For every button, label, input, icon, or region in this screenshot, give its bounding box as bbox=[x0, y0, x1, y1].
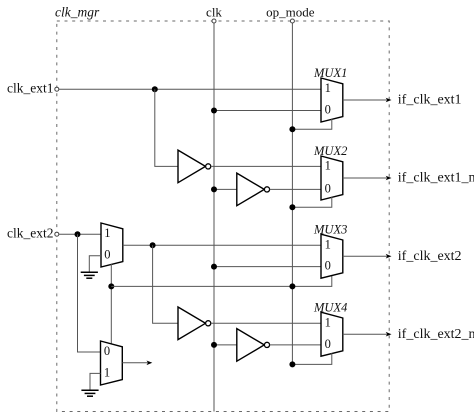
inverter U4 bbox=[237, 329, 270, 362]
svg-text:MUX3: MUX3 bbox=[313, 222, 347, 236]
junction clk_ext2 branch bbox=[75, 231, 81, 237]
wire MUX3 output if_clk_ext2 bbox=[343, 249, 462, 264]
svg-text:1: 1 bbox=[325, 159, 331, 173]
junction op_mode / select bus bbox=[289, 283, 295, 289]
mux MUX1 bbox=[313, 66, 347, 122]
svg-text:if_clk_ext2: if_clk_ext2 bbox=[398, 249, 462, 264]
port clk_ext1 bbox=[7, 81, 59, 96]
mux MUX3 bbox=[313, 222, 347, 278]
wire mux M5 input 0 to ground bbox=[89, 256, 101, 272]
port clk bbox=[206, 5, 222, 24]
svg-text:1: 1 bbox=[325, 315, 331, 329]
wire branch down to mux M6 input 0 bbox=[78, 234, 101, 352]
wire branch down to inverter U3 bbox=[153, 245, 178, 323]
wire MUX2 select from op_mode bbox=[292, 197, 331, 207]
inverter U1 bbox=[178, 150, 211, 183]
svg-text:clk: clk bbox=[206, 5, 222, 20]
wire mux M5 output to MUX3 input 1 bbox=[123, 244, 321, 246]
frame clk_mgr dashed boundary bbox=[57, 21, 389, 412]
mux M5 bbox=[101, 223, 123, 267]
svg-text:1: 1 bbox=[104, 365, 110, 379]
svg-text:clk_ext1: clk_ext1 bbox=[7, 81, 54, 96]
mux MUX2 bbox=[313, 144, 347, 200]
junction clk / MUX3 input 0 bbox=[211, 264, 217, 270]
junction op_mode / MUX1 select bbox=[289, 126, 295, 132]
junction op_mode / MUX4 select bbox=[289, 361, 295, 367]
wire branch down to inverter U1 bbox=[155, 89, 178, 166]
wire MUX4 select from op_mode bbox=[292, 353, 331, 364]
svg-text:if_clk_ext2_n: if_clk_ext2_n bbox=[398, 327, 474, 342]
wire clk to inverter U2 bbox=[214, 188, 237, 190]
wire clk_ext1 to MUX1 input 1 bbox=[59, 88, 321, 90]
svg-text:if_clk_ext1: if_clk_ext1 bbox=[398, 93, 462, 108]
wire MUX1 select from op_mode bbox=[292, 119, 331, 129]
svg-text:0: 0 bbox=[325, 181, 331, 195]
svg-text:1: 1 bbox=[325, 81, 331, 95]
wire mux M6 input 1 to ground bbox=[90, 373, 101, 389]
wire MUX4 output if_clk_ext2_n bbox=[343, 327, 474, 342]
svg-text:1: 1 bbox=[104, 226, 110, 240]
wire clk to MUX3 input 0 bbox=[214, 266, 321, 268]
junction clk / MUX1 input 0 bbox=[211, 108, 217, 114]
ground G2 bbox=[81, 390, 98, 396]
junction select riser / select bus bbox=[108, 283, 114, 289]
inverter U3 bbox=[178, 307, 211, 340]
mux M6 bbox=[101, 341, 123, 385]
svg-text:clk_ext2: clk_ext2 bbox=[7, 226, 54, 241]
wire mux M5 select riser to mux M6 bbox=[110, 264, 112, 344]
svg-text:clk_mgr: clk_mgr bbox=[55, 5, 100, 20]
wire op_mode vertical bbox=[291, 23, 293, 364]
wire inverter U1 out to MUX2 input 1 bbox=[211, 165, 321, 167]
wire clk vertical bbox=[213, 23, 215, 412]
svg-text:MUX2: MUX2 bbox=[313, 144, 347, 158]
junction mux M5 output branch bbox=[150, 242, 156, 248]
wire inverter U4 out to MUX4 input 0 bbox=[270, 344, 321, 346]
wire inverter U2 out to MUX2 input 0 bbox=[270, 188, 321, 190]
junction on clk_ext1 wire bbox=[152, 86, 158, 92]
svg-text:op_mode: op_mode bbox=[266, 5, 315, 20]
svg-text:1: 1 bbox=[325, 238, 331, 252]
svg-text:0: 0 bbox=[325, 259, 331, 273]
svg-text:0: 0 bbox=[104, 344, 110, 358]
wire MUX2 output if_clk_ext1_n bbox=[343, 171, 474, 186]
svg-text:MUX1: MUX1 bbox=[313, 66, 347, 80]
wire MUX1 output if_clk_ext1 bbox=[343, 93, 462, 108]
wire clk_ext2 to mux M5 input 1 bbox=[59, 233, 101, 235]
junction op_mode / MUX2 select bbox=[289, 204, 295, 210]
ground G1 bbox=[81, 272, 98, 278]
svg-text:MUX4: MUX4 bbox=[313, 300, 347, 314]
svg-text:0: 0 bbox=[104, 248, 110, 262]
wire mux M6 output stub arrow bbox=[122, 361, 152, 366]
mux MUX4 bbox=[313, 300, 347, 356]
wire clk to inverter U4 bbox=[214, 344, 237, 346]
wire inverter U3 out to MUX4 input 1 bbox=[211, 322, 321, 324]
svg-text:if_clk_ext1_n: if_clk_ext1_n bbox=[398, 171, 474, 186]
port op_mode bbox=[266, 5, 315, 24]
junction clk / inverter U2 bbox=[211, 186, 217, 192]
junction clk / inverter U4 bbox=[211, 342, 217, 348]
wire clk to MUX1 input 0 bbox=[214, 110, 321, 112]
svg-text:0: 0 bbox=[325, 337, 331, 351]
svg-text:0: 0 bbox=[325, 103, 331, 117]
port clk_ext2 bbox=[7, 226, 59, 241]
wire select bus to MUX3 select bbox=[111, 275, 331, 286]
inverter U2 bbox=[237, 173, 270, 206]
